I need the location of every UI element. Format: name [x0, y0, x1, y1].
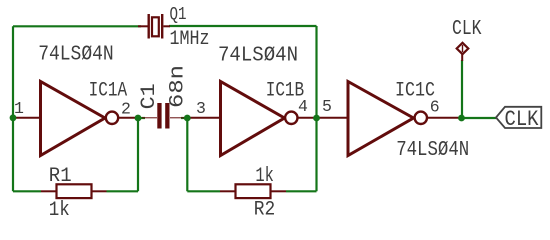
svg-text:1: 1 [14, 99, 24, 118]
svg-text:5: 5 [322, 97, 332, 116]
svg-text:R1: R1 [49, 165, 72, 188]
svg-text:68n: 68n [167, 65, 190, 108]
svg-text:1MHz: 1MHz [170, 28, 210, 51]
svg-text:C1: C1 [138, 83, 161, 109]
svg-text:74LSØ4N: 74LSØ4N [218, 45, 298, 68]
svg-text:3: 3 [196, 99, 206, 118]
svg-text:6: 6 [430, 97, 440, 116]
svg-text:1k: 1k [255, 165, 274, 188]
svg-text:CLK: CLK [452, 17, 482, 41]
svg-text:CLK: CLK [505, 107, 540, 132]
svg-text:74LSØ4N: 74LSØ4N [396, 139, 469, 162]
svg-text:74LSØ4N: 74LSØ4N [38, 44, 114, 67]
svg-text:2: 2 [121, 100, 131, 119]
svg-text:4: 4 [298, 97, 308, 116]
svg-text:R2: R2 [254, 198, 275, 221]
svg-text:Q1: Q1 [170, 5, 187, 25]
svg-text:1k: 1k [49, 199, 70, 222]
